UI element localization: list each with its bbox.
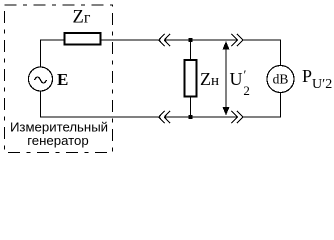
- svg-text:E: E: [57, 70, 68, 89]
- wire resistor to top-left break: [101, 39, 159, 41]
- wire node B to bottom-left break: [164, 116, 190, 118]
- svg-text:dB: dB: [273, 72, 289, 87]
- AC source E: [29, 67, 53, 91]
- svg-text:генератор: генератор: [27, 133, 88, 148]
- wire bottom-left break to source: [41, 91, 159, 117]
- wire Zн to node B: [190, 97, 192, 118]
- node A junction dot: [189, 38, 193, 42]
- node B junction dot: [189, 115, 193, 119]
- line break chevrons top-left: [159, 34, 171, 46]
- line break chevrons bottom-right: [232, 111, 244, 123]
- wire top-right break to dB meter: [243, 40, 281, 66]
- line break chevrons top-right: [232, 34, 244, 46]
- resistor Zн: [185, 60, 197, 97]
- wire node A to top-right break: [191, 39, 238, 41]
- svg-text:U′2: U′2: [230, 67, 250, 98]
- line break chevrons bottom-left: [159, 111, 171, 123]
- wire break to node A: [164, 39, 190, 41]
- wire bottom-right break to node B: [191, 116, 238, 118]
- wire dB meter to bottom-right break: [243, 93, 281, 118]
- svg-text:Zн: Zн: [200, 69, 219, 89]
- svg-text:Zг: Zг: [73, 8, 91, 28]
- level meter dB: [267, 66, 294, 93]
- svg-text:PU′2: PU′2: [302, 66, 332, 92]
- voltage arrow U'2: [223, 41, 230, 116]
- resistor Zг: [65, 33, 101, 45]
- wire source top to resistor: [41, 40, 65, 67]
- wire node A to Zн: [190, 40, 192, 60]
- measurement generator dashed enclosure: [5, 5, 113, 153]
